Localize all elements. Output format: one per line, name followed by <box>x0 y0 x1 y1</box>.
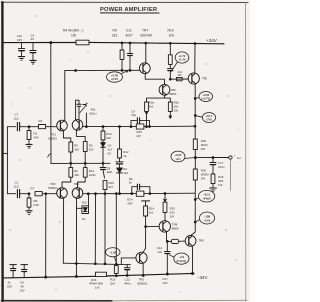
callout oval V7 -15B <box>199 212 214 224</box>
resistor R3 (degeneration, upper-left) <box>69 142 73 152</box>
ground (C4) <box>30 59 36 61</box>
wire TR9 emitter to rail <box>191 246 193 274</box>
callout oval V6 -61.2 <box>198 190 214 202</box>
svg-text:Tr6: Tr6 <box>202 76 207 80</box>
resistor R21 (TR6 base series) <box>176 77 182 80</box>
svg-text:+34V: +34V <box>206 38 218 43</box>
svg-text:−1.5B: −1.5B <box>109 250 116 254</box>
wire below output terminal <box>229 159 231 190</box>
svg-text:63: 63 <box>108 152 112 156</box>
resistor R20 <box>193 139 197 150</box>
transistor TR1 <box>57 120 68 131</box>
svg-text:2k2: 2k2 <box>106 136 111 140</box>
resistor R8 (input shunt, lower) <box>28 194 30 198</box>
capacitor C4b (33p over R25) <box>131 120 137 126</box>
callout oval V1 +0.7 <box>107 72 123 82</box>
wire TR4 emitter drop <box>75 198 77 276</box>
node TR4drop/L-wire <box>76 263 78 265</box>
svg-text:4n4: 4n4 <box>178 70 183 74</box>
wire input feed stub <box>3 153 8 155</box>
node A (rail / left dropper) <box>50 42 52 44</box>
svg-text:C11: C11 <box>126 29 132 33</box>
resistor R13 <box>102 127 104 131</box>
node rail/R19 <box>169 42 171 44</box>
node tail/TR2 <box>75 70 77 72</box>
node M2/R3 <box>70 163 72 165</box>
svg-text:M2: M2 <box>178 73 182 77</box>
wire output line <box>195 157 228 159</box>
capacitor C12 <box>126 265 128 268</box>
svg-text:2k1: 2k1 <box>112 34 117 38</box>
svg-text:R4 4k (6k0←): R4 4k (6k0←) <box>63 29 83 33</box>
svg-text:2k: 2k <box>129 181 133 185</box>
wire TR8 base <box>146 226 159 228</box>
transistor TR8 <box>159 221 170 232</box>
resistor R5 (degeneration, upper-right) <box>83 142 87 152</box>
node output/zobel <box>212 157 214 159</box>
resistor R7 (input series, lower) <box>35 192 42 196</box>
capacitor C4 (rail decoupling) <box>32 43 34 51</box>
wire tail row y70 <box>65 69 140 71</box>
trimmer bias widget 40k <box>76 100 79 104</box>
svg-text:10k: 10k <box>74 173 79 177</box>
wire TR7 collector elbow to TR6b <box>145 74 164 85</box>
resistor R2a <box>147 95 165 102</box>
resistor R29 (series in bottom rail) <box>96 272 107 276</box>
svg-text:600mW: 600mW <box>141 34 153 38</box>
svg-text:2u2: 2u2 <box>14 185 19 189</box>
svg-text:2k4: 2k4 <box>110 281 115 285</box>
node bottom rail/TR5 <box>142 274 144 276</box>
border frame bottom <box>1 300 112 302</box>
capacitor C5 (below M2 on x103) <box>102 163 104 167</box>
node M1/x195 <box>194 125 196 127</box>
node L/x116 <box>115 263 117 265</box>
wire TR5 emitter to rail <box>142 263 144 275</box>
callout oval V9 -1.5 <box>106 248 120 257</box>
svg-text:R19: R19 <box>168 29 174 33</box>
arrow R1b down <box>169 111 171 117</box>
diode D2 <box>119 164 121 168</box>
svg-text:43K: 43K <box>34 136 39 140</box>
svg-text:100: 100 <box>163 281 168 285</box>
D1 cluster: wire from M3 <box>88 194 90 206</box>
node M3/x95 <box>95 193 97 195</box>
wire left long vertical dropper <box>50 43 52 164</box>
node tail/R9 <box>121 70 123 72</box>
callout oval V5 +0.6 <box>171 151 185 162</box>
callout oval V3 +0.65 <box>199 92 213 102</box>
wire TR2 emitter elbow <box>76 130 85 142</box>
resistor R30 <box>194 158 196 169</box>
wire TR5 top to R14 column <box>143 248 146 253</box>
svg-text:33p: 33p <box>131 113 136 117</box>
node M3/x119 <box>119 193 121 195</box>
wire R22 to TR9 base <box>179 240 186 242</box>
wire input row 1 <box>7 126 15 128</box>
svg-text:1u0: 1u0 <box>107 170 112 174</box>
node rail/TR7 <box>145 42 147 44</box>
wire D1 stub <box>77 207 82 209</box>
border frame left <box>1 2 4 301</box>
wire TR3 emitter long drop <box>62 198 64 263</box>
ground (R8) <box>26 210 32 212</box>
callout oval V8 -2.8 <box>174 253 189 264</box>
wire R1a to TR4 <box>78 177 86 188</box>
node rail/x195 <box>194 43 196 45</box>
svg-text:R7: R7 <box>31 186 35 190</box>
node bottom rail/R16 <box>115 275 117 277</box>
svg-text:+0.6V: +0.6V <box>174 153 181 157</box>
svg-text:1k5: 1k5 <box>74 147 79 151</box>
resistor R1a (degeneration, lower-right) <box>84 163 86 167</box>
svg-text:4n07: 4n07 <box>126 34 134 38</box>
node x170/base row <box>169 78 171 80</box>
resistor R22 (between TR8 and TR9) <box>171 239 178 243</box>
svg-text:(+0.7V): (+0.7V) <box>201 97 210 101</box>
node M1/widget <box>86 126 88 128</box>
svg-text:+1.7V: +1.7V <box>178 54 185 58</box>
resistor R14 <box>144 206 148 216</box>
svg-text:−2.6V: −2.6V <box>203 218 210 222</box>
capacitor C17 (zobel) <box>212 158 214 163</box>
wire TR6 emitter down <box>194 84 196 139</box>
ground (zobel) <box>210 187 217 189</box>
wire input row 2 <box>7 193 15 195</box>
svg-text:100n: 100n <box>218 165 225 169</box>
node M3/R15 <box>164 193 166 195</box>
svg-text:B066: B066 <box>172 226 179 230</box>
node rail/C11 <box>129 42 131 44</box>
node bottom rail/C12 <box>126 275 128 277</box>
capacitor C7 (input coupling, upper) <box>16 123 18 131</box>
svg-text:1k: 1k <box>123 154 127 158</box>
diode D1 <box>83 208 87 211</box>
node x195 sense3 <box>194 199 196 201</box>
svg-text:−64mV: −64mV <box>202 196 211 200</box>
svg-text:440u: 440u <box>124 281 131 285</box>
svg-text:1W: 1W <box>174 108 179 112</box>
transistor TR2 <box>72 120 83 131</box>
node input junction lower <box>28 193 30 195</box>
svg-text:−2.8: −2.8 <box>179 255 185 259</box>
svg-text:−15B: −15B <box>204 215 211 219</box>
terminal output circle <box>229 156 232 159</box>
T-bar top of R14 column <box>142 200 150 202</box>
resistor R1b <box>165 98 171 102</box>
svg-text:1W: 1W <box>95 285 100 289</box>
node input junction upper <box>28 126 30 128</box>
transistor TR6 (output upper) <box>188 73 199 84</box>
wire x116 below M3 to bottom L <box>115 194 117 265</box>
resistor R26 <box>103 181 107 190</box>
node x195 sense1 <box>194 98 196 100</box>
wire R2a to M1 <box>146 111 148 126</box>
svg-text:B0B2K: B0B2K <box>49 186 58 190</box>
node R2a bottom <box>146 112 148 114</box>
svg-text:−34V: −34V <box>197 275 207 280</box>
node output junction <box>194 157 196 159</box>
svg-text:+0.1: +0.1 <box>175 157 181 161</box>
wire mid row M2 <box>51 162 110 164</box>
wire x105 below M3 to bottom L <box>104 194 106 264</box>
capacitor C2 (input coupling, lower) <box>16 190 18 198</box>
resistor R15 <box>164 194 166 202</box>
node M3/x116 <box>115 193 117 195</box>
node M1/C4 left <box>130 126 132 128</box>
node M3/C5 right <box>149 193 151 195</box>
wire TR1 emitter elbow <box>63 130 70 142</box>
resistor R1 (input shunt, upper) <box>28 127 30 131</box>
wire bottom supply rail -34V <box>4 276 96 278</box>
node L/x105 <box>104 263 106 265</box>
svg-text:1k1: 1k1 <box>149 211 154 215</box>
wire TR6b right lead <box>165 94 167 97</box>
svg-text:4.3K: 4.3K <box>33 203 39 207</box>
svg-text:2W: 2W <box>201 176 206 180</box>
transistor TR4 <box>72 188 83 199</box>
svg-text:2k1: 2k1 <box>149 104 154 108</box>
wire TR8 emitter elbow <box>167 232 172 242</box>
node x195 sense4 <box>194 221 196 223</box>
capacitor C3 (rail decoupling) <box>21 43 23 49</box>
svg-text:out: out <box>237 156 241 160</box>
diode D3 <box>102 140 104 142</box>
svg-text:+0.7B: +0.7B <box>111 74 118 78</box>
wire x45 vertical to bottom rail <box>45 194 47 277</box>
node rail/R9 <box>121 42 123 44</box>
wire widget to feedback node <box>85 113 87 127</box>
resistor R4 (series in top rail) <box>76 40 89 45</box>
capacitor C11 <box>129 43 131 53</box>
svg-text:42R: 42R <box>127 201 132 205</box>
transistor TR5 <box>136 252 147 263</box>
node M3/x105 <box>104 193 106 195</box>
svg-text:4k7: 4k7 <box>137 134 142 138</box>
resistor R19 <box>169 43 171 55</box>
svg-text:1k9: 1k9 <box>169 34 174 38</box>
node x45/bottom rail <box>45 276 47 278</box>
svg-text:1W: 1W <box>170 215 175 219</box>
feedback box R25 on M1 <box>136 124 144 129</box>
border frame top <box>1 1 248 3</box>
svg-text:1W: 1W <box>218 183 223 187</box>
svg-text:1k0m: 1k0m <box>89 173 97 177</box>
resistor R12 <box>119 127 121 149</box>
wire TR6 base row <box>170 78 188 80</box>
capacitor C5b (over R24) <box>132 187 137 194</box>
svg-text:220: 220 <box>7 284 12 288</box>
capacitor C10 (bottom left) <box>10 264 17 266</box>
capacitor C13 (x170) <box>169 64 171 68</box>
svg-text:2u2: 2u2 <box>14 117 19 121</box>
svg-text:B05b: B05b <box>170 92 177 96</box>
node M2/x103 <box>102 162 104 164</box>
resistor R2b (degeneration, lower-left) <box>70 163 72 167</box>
wire TR7 emitter to rail <box>145 43 147 63</box>
wire bottom L row <box>63 263 130 265</box>
node M3/C5 left <box>131 193 133 195</box>
svg-text:−61.2: −61.2 <box>203 193 210 197</box>
wire TR2 collector up <box>75 100 77 120</box>
svg-text:+61.7: +61.7 <box>206 114 213 118</box>
D1 loop <box>82 206 89 214</box>
svg-text:POWER AMPLIFIER: POWER AMPLIFIER <box>100 7 158 13</box>
node M3/D1 branch <box>87 193 89 195</box>
capacitor C9 (bottom left) <box>21 264 28 266</box>
bias chain2: node M1/x119 <box>119 126 121 128</box>
node L/x95 <box>94 263 96 265</box>
wire mid row M3 <box>83 193 137 195</box>
wire top supply rail +34V <box>4 42 76 44</box>
svg-text:1u0: 1u0 <box>157 250 162 254</box>
node bottom rail/TR9 <box>192 273 194 275</box>
resistor R16 <box>114 266 118 274</box>
svg-text:25: 25 <box>31 37 35 41</box>
node TR4drop/bottom rail <box>75 275 77 277</box>
stray pencil mark <box>48 154 52 158</box>
capacitor C8 <box>119 158 121 162</box>
ground (R1) <box>26 143 32 145</box>
resistor R18 (zobel) <box>211 174 215 184</box>
svg-text:B0806L: B0806L <box>138 281 148 285</box>
node tail/C11 <box>129 70 131 72</box>
wire rail to TR6 <box>194 44 196 74</box>
bias chain: node M1/x103 <box>102 126 104 128</box>
node x195 sense2 <box>194 115 196 117</box>
transistor TR7 <box>139 63 150 74</box>
svg-text:TR4: TR4 <box>74 182 80 186</box>
title underline <box>100 12 160 14</box>
svg-text:R9: R9 <box>113 29 117 33</box>
feedback box R24 on M3 <box>136 191 144 196</box>
wire x95 below M3 to bottom L <box>94 194 96 264</box>
node bottom rail/C14 <box>166 273 168 275</box>
svg-text:(7V): (7V) <box>206 118 211 122</box>
node M1/R2a <box>146 126 148 128</box>
svg-text:R2: R2 <box>39 119 43 123</box>
node x45 drop <box>45 193 47 195</box>
transistor TR9 (output lower) <box>191 232 195 235</box>
svg-text:R10: R10 <box>82 201 87 205</box>
speckle noise dots <box>36 16 37 17</box>
svg-text:+0.5V: +0.5V <box>111 77 118 81</box>
wire R2b to TR3 <box>62 177 71 188</box>
resistor R2 (input series, upper) <box>29 126 38 128</box>
wire mid row M1 <box>83 126 137 128</box>
svg-text:16V: 16V <box>17 38 22 42</box>
svg-text:D1: D1 <box>82 217 86 221</box>
wire input split vertical <box>6 127 8 194</box>
transistor TR3 <box>57 188 68 199</box>
node M2/R5 <box>84 163 86 165</box>
svg-text:TR7: TR7 <box>142 29 148 33</box>
callout oval V4 +61.7 <box>202 113 215 123</box>
svg-text:0k7: 0k7 <box>109 185 114 189</box>
resistor R9 <box>121 43 123 50</box>
transistor TR6b (pre-driver) <box>159 84 170 95</box>
svg-text:(5.4mV): (5.4mV) <box>177 259 187 263</box>
svg-text:B0822: B0822 <box>49 136 58 140</box>
svg-text:8k2m: 8k2m <box>90 112 98 116</box>
capacitor C14 <box>166 241 168 251</box>
callout oval V2 +1.7 <box>175 52 189 63</box>
svg-text:+1.4V: +1.4V <box>178 58 185 62</box>
ground (C3) <box>18 56 24 58</box>
svg-text:TR9: TR9 <box>198 238 204 242</box>
svg-text:1k3: 1k3 <box>123 171 128 175</box>
node M1/C4 right <box>149 126 151 128</box>
svg-text:16V: 16V <box>20 288 25 292</box>
svg-text:2W: 2W <box>201 147 206 151</box>
node R14col/TR8 base <box>145 226 147 228</box>
border frame right <box>245 2 247 301</box>
wire TR1 collector up <box>64 71 66 121</box>
wire TR5 base elbow from L <box>120 258 122 264</box>
svg-text:+0.65: +0.65 <box>202 93 209 97</box>
svg-text:3k3: 3k3 <box>89 147 94 151</box>
wire TR5 base <box>121 257 136 259</box>
node TR8/C14 <box>166 241 168 243</box>
